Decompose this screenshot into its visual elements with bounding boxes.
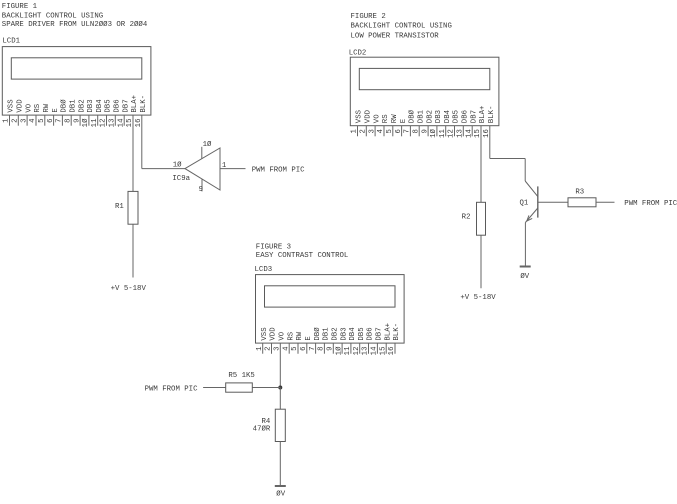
- svg-text:DB2: DB2: [332, 327, 340, 340]
- svg-text:DB7: DB7: [122, 99, 130, 112]
- driver IC9a (ULN2003 element, triangle): [172, 148, 220, 190]
- svg-text:VSS: VSS: [8, 99, 16, 113]
- LCD1 pin 15 (BLA+): [126, 95, 139, 127]
- svg-text:12: 12: [448, 129, 456, 138]
- IC9a top pin 10: [202, 140, 212, 159]
- svg-text:DB6: DB6: [462, 110, 470, 123]
- svg-text:PWM FROM PIC: PWM FROM PIC: [145, 385, 198, 393]
- svg-text:R5 1K5: R5 1K5: [228, 372, 254, 380]
- LCD3 pin 1 (VSS): [256, 327, 269, 354]
- LCD1 display window: [11, 58, 142, 79]
- LCD3 pin 10 (DB3): [334, 327, 348, 355]
- svg-text:7: 7: [56, 119, 64, 123]
- svg-text:PWM FROM PIC: PWM FROM PIC: [252, 166, 305, 174]
- LCD3 pin 8 (DB1): [318, 327, 331, 354]
- svg-text:8: 8: [412, 129, 420, 133]
- LCD1 pin 8 (DB1): [64, 99, 77, 126]
- svg-text:DBØ: DBØ: [60, 99, 69, 113]
- svg-text:+V 5-18V: +V 5-18V: [111, 285, 147, 293]
- LCD2 pin 2 (VDD): [360, 109, 373, 136]
- svg-text:9: 9: [327, 347, 335, 351]
- svg-text:DB7: DB7: [470, 110, 478, 123]
- LCD1 pin 1 (VSS): [3, 99, 16, 126]
- LCD2 pin 5 (RW): [386, 114, 399, 137]
- LCD2 pin 16 (BLK-): [483, 106, 496, 138]
- svg-text:VDD: VDD: [365, 109, 373, 123]
- LCD2 pin 12 (DB5): [448, 110, 461, 138]
- resistor R4 470R: [253, 409, 286, 441]
- svg-text:RW: RW: [43, 103, 51, 112]
- svg-text:47ØR: 47ØR: [253, 425, 271, 434]
- svg-text:2: 2: [360, 129, 368, 133]
- svg-text:RS: RS: [382, 114, 390, 123]
- wire R1 to +V supply: [132, 224, 134, 277]
- svg-text:VSS: VSS: [356, 109, 364, 123]
- LCD1 pin 5 (RW): [38, 103, 51, 126]
- LCD1 pin 7 (DB0): [56, 99, 69, 126]
- svg-text:DBØ: DBØ: [408, 109, 417, 123]
- LCD3 pin 16 (BLK-): [388, 323, 401, 355]
- svg-text:R4: R4: [261, 418, 270, 426]
- svg-text:RW: RW: [391, 114, 399, 123]
- svg-text:5: 5: [386, 129, 394, 133]
- svg-text:9: 9: [73, 119, 81, 123]
- svg-text:E: E: [52, 108, 60, 113]
- wire LCD2 pin 16 (BLK-) to Q1 collector: [490, 126, 525, 181]
- svg-text:13: 13: [457, 129, 465, 138]
- svg-text:3: 3: [20, 119, 28, 123]
- LCD2 pin 4 (RS): [377, 114, 390, 137]
- LCD2 pin 15 (BLA+): [474, 106, 487, 138]
- svg-text:1: 1: [351, 129, 359, 134]
- svg-text:12: 12: [100, 119, 108, 128]
- svg-text:DB1: DB1: [323, 327, 331, 341]
- svg-text:DB3: DB3: [340, 327, 348, 340]
- wire junction to resistor R5: [252, 387, 280, 389]
- LCD3 pin 14 (DB7): [371, 327, 384, 355]
- svg-text:1: 1: [222, 162, 227, 170]
- resistor R5 1K5: [226, 372, 255, 392]
- LCD2 pin 14 (DB7): [465, 110, 478, 138]
- transistor Q1: [519, 181, 537, 223]
- svg-text:IC9a: IC9a: [172, 175, 190, 183]
- svg-text:3: 3: [368, 129, 376, 133]
- junction node at VO: [278, 386, 282, 390]
- svg-text:8: 8: [64, 119, 72, 123]
- svg-text:5: 5: [291, 347, 299, 351]
- svg-text:13: 13: [109, 119, 117, 128]
- svg-text:DB4: DB4: [349, 327, 357, 341]
- svg-text:VSS: VSS: [261, 327, 269, 341]
- LCD2 pin 8 (DB1): [412, 109, 425, 136]
- svg-text:VO: VO: [279, 331, 287, 340]
- LCD3 pin 11 (DB4): [344, 327, 357, 356]
- LCD module LCD2 outline: [350, 57, 499, 126]
- svg-text:BLK-: BLK-: [140, 95, 148, 113]
- LCD3 pin 5 (RW): [291, 331, 304, 354]
- LCD1 pin 10 (DB3): [81, 99, 95, 127]
- LCD module LCD1 outline: [2, 47, 151, 116]
- svg-text:SPARE DRIVER FROM ULN2ØØ3 OR 2: SPARE DRIVER FROM ULN2ØØ3 OR 2ØØ4: [2, 20, 148, 29]
- LCD1 pin 9 (DB2): [73, 99, 86, 125]
- LCD1 pin 11 (DB4): [91, 99, 104, 128]
- svg-text:1: 1: [256, 346, 264, 351]
- svg-text:5: 5: [38, 119, 46, 123]
- svg-text:BLA+: BLA+: [131, 95, 139, 113]
- svg-text:DB5: DB5: [453, 110, 461, 123]
- svg-text:11: 11: [439, 129, 447, 138]
- svg-text:DB2: DB2: [426, 110, 434, 123]
- svg-text:R3: R3: [575, 189, 584, 197]
- LCD3 pin 15 (BLA+): [379, 323, 392, 355]
- svg-text:DB6: DB6: [114, 99, 122, 112]
- svg-text:BACKLIGHT CONTROL USING: BACKLIGHT CONTROL USING: [2, 12, 103, 20]
- svg-text:DB5: DB5: [105, 99, 113, 112]
- LCD1 pin 13 (DB6): [109, 99, 122, 127]
- svg-text:14: 14: [465, 129, 473, 138]
- svg-text:FIGURE 3: FIGURE 3: [256, 243, 291, 251]
- svg-text:RS: RS: [34, 103, 42, 112]
- LCD2 pin 9 (DB2): [421, 110, 434, 136]
- svg-text:DBØ: DBØ: [313, 327, 322, 341]
- LCD module LCD3 outline: [256, 275, 405, 344]
- svg-text:Q1: Q1: [519, 200, 528, 208]
- svg-text:7: 7: [309, 347, 317, 351]
- svg-text:1Ø: 1Ø: [429, 129, 438, 138]
- svg-text:BLA+: BLA+: [479, 106, 487, 124]
- LCD1 pin 16 (BLK-): [135, 95, 148, 127]
- svg-text:FIGURE 2: FIGURE 2: [351, 13, 386, 21]
- LCD1 pin 3 (VO): [20, 103, 33, 126]
- LCD1 pin 2 (VDD): [12, 99, 25, 126]
- figure 2 title: [351, 13, 452, 40]
- LCD2 pin 6 (E): [395, 118, 408, 136]
- svg-text:FIGURE 1: FIGURE 1: [2, 3, 38, 11]
- svg-text:4: 4: [282, 346, 290, 351]
- wire R2 to +V supply: [480, 235, 482, 288]
- svg-text:2: 2: [12, 119, 20, 123]
- svg-text:BLA+: BLA+: [384, 323, 392, 341]
- LCD2 display window: [359, 68, 490, 89]
- resistor R1: [115, 191, 138, 224]
- svg-text:DB3: DB3: [87, 99, 95, 112]
- LCD3 pin 4 (RS): [282, 331, 295, 354]
- svg-text:RS: RS: [287, 331, 295, 340]
- svg-text:6: 6: [47, 119, 55, 123]
- LCD1 pin 4 (RS): [29, 103, 42, 126]
- svg-text:DB2: DB2: [78, 99, 86, 112]
- figure 1 title: [2, 3, 148, 29]
- LCD3 pin 7 (DB0): [309, 327, 322, 354]
- wire Q1 emitter down to ground: [524, 223, 526, 267]
- svg-text:ØV: ØV: [520, 272, 529, 281]
- IC9a input pin 1 wire to PWM: [220, 162, 246, 170]
- svg-text:VDD: VDD: [17, 99, 25, 113]
- LCD3 pin 9 (DB2): [327, 327, 340, 353]
- wire R5 to PWM: [203, 387, 226, 389]
- svg-text:VO: VO: [25, 103, 33, 112]
- svg-text:R2: R2: [462, 213, 471, 221]
- svg-text:1Ø: 1Ø: [334, 346, 343, 355]
- svg-text:14: 14: [371, 346, 379, 355]
- svg-text:1: 1: [3, 118, 11, 123]
- svg-text:9: 9: [199, 186, 203, 194]
- svg-text:ØV: ØV: [276, 490, 285, 499]
- svg-text:8: 8: [318, 347, 326, 351]
- LCD3 pin 13 (DB6): [362, 327, 375, 355]
- svg-text:16: 16: [388, 347, 396, 356]
- svg-text:1Ø: 1Ø: [173, 161, 182, 170]
- svg-text:BLK-: BLK-: [488, 106, 496, 124]
- LCD2 pin 10 (DB3): [429, 110, 443, 138]
- LCD3 pin 2 (VDD): [265, 327, 278, 354]
- svg-text:6: 6: [395, 129, 403, 133]
- svg-text:DB4: DB4: [444, 109, 452, 123]
- svg-text:12: 12: [353, 347, 361, 356]
- wire LCD2 pin 15 (BLA+) down to resistor R2: [480, 126, 482, 203]
- LCD3 pin 6 (E): [300, 336, 313, 354]
- svg-text:DB3: DB3: [435, 110, 443, 123]
- svg-text:+V 5-18V: +V 5-18V: [460, 294, 496, 302]
- svg-text:DB5: DB5: [358, 327, 366, 340]
- IC9a bottom pin 9: [199, 179, 203, 194]
- svg-text:EASY CONTRAST CONTROL: EASY CONTRAST CONTROL: [256, 252, 349, 260]
- LCD3 display window: [265, 286, 396, 307]
- svg-text:E: E: [305, 336, 313, 341]
- svg-text:LOW POWER TRANSISTOR: LOW POWER TRANSISTOR: [351, 33, 440, 41]
- svg-text:DB1: DB1: [417, 109, 425, 123]
- svg-text:PWM FROM PIC: PWM FROM PIC: [624, 200, 677, 208]
- svg-text:LCD3: LCD3: [255, 266, 273, 274]
- svg-text:VO: VO: [373, 114, 381, 123]
- LCD2 pin 1 (VSS): [351, 109, 364, 136]
- LCD2 pin 13 (DB6): [457, 110, 470, 138]
- figure 3 title: [256, 243, 349, 260]
- wire R4 down to ground: [279, 442, 281, 487]
- LCD3 pin 12 (DB5): [353, 327, 366, 355]
- svg-text:VDD: VDD: [270, 327, 278, 341]
- resistor R3: [568, 189, 596, 207]
- svg-text:E: E: [400, 118, 408, 123]
- svg-text:2: 2: [265, 347, 273, 351]
- wire R3 to PWM: [596, 201, 615, 203]
- LCD1 pin 14 (DB7): [117, 99, 130, 127]
- resistor R2: [462, 202, 486, 235]
- svg-text:BACKLIGHT CONTROL USING: BACKLIGHT CONTROL USING: [351, 22, 452, 30]
- wire junction down to resistor R4: [279, 388, 281, 410]
- svg-text:15: 15: [379, 347, 387, 356]
- ground 0V (figure 3): [275, 486, 286, 499]
- svg-text:7: 7: [404, 129, 412, 133]
- wire Q1 base to resistor R3: [538, 201, 568, 203]
- svg-text:1Ø: 1Ø: [81, 118, 90, 127]
- LCD2 pin 11 (DB4): [439, 109, 452, 138]
- svg-text:LCD1: LCD1: [2, 38, 20, 46]
- wire LCD3 pin 3 (VO) down to junction: [279, 343, 281, 387]
- svg-text:DB4: DB4: [96, 99, 104, 113]
- svg-text:14: 14: [117, 118, 125, 127]
- LCD1 pin 6 (E): [47, 108, 60, 126]
- svg-text:LCD2: LCD2: [349, 49, 367, 57]
- LCD1 pin 12 (DB5): [100, 99, 113, 127]
- svg-text:11: 11: [91, 118, 99, 127]
- svg-text:R1: R1: [115, 203, 124, 211]
- svg-text:13: 13: [362, 347, 370, 356]
- svg-text:RW: RW: [296, 331, 304, 340]
- svg-text:DB7: DB7: [376, 327, 384, 340]
- LCD2 pin 7 (DB0): [404, 109, 417, 136]
- svg-text:11: 11: [344, 346, 352, 355]
- svg-text:BLK-: BLK-: [393, 323, 401, 341]
- svg-text:4: 4: [377, 129, 385, 134]
- svg-text:DB1: DB1: [69, 99, 77, 113]
- ground 0V (figure 2): [520, 267, 531, 281]
- svg-text:9: 9: [421, 129, 429, 133]
- svg-text:DB6: DB6: [367, 327, 375, 340]
- svg-text:1Ø: 1Ø: [203, 140, 212, 149]
- wire LCD1 pin 15 (BLA+) down to resistor R1: [132, 115, 134, 191]
- LCD2 pin 3 (VO): [368, 114, 381, 137]
- wire LCD1 pin 16 (BLK-) down then right to IC5a output: [142, 115, 185, 169]
- LCD3 pin 3 (VO): [274, 331, 287, 351]
- svg-text:6: 6: [300, 347, 308, 351]
- svg-text:4: 4: [29, 118, 37, 123]
